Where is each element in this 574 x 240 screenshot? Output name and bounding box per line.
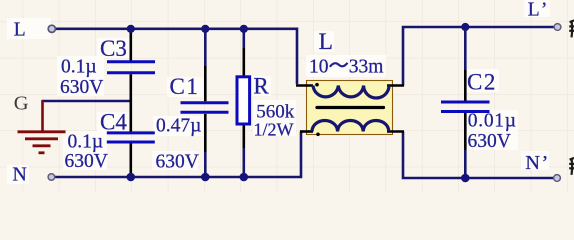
svg-text:R: R (253, 74, 269, 99)
wire: G wire horizontal (42, 100, 130, 103)
choke pin stub bottom-right (black) (387, 130, 404, 133)
svg-text:1/2W: 1/2W (254, 119, 294, 139)
svg-text:N: N (12, 163, 26, 185)
svg-text:C1: C1 (170, 74, 200, 99)
svg-text:0.1µ: 0.1µ (61, 57, 97, 78)
svg-text:C4: C4 (100, 110, 127, 135)
wire C1 top (204, 29, 207, 66)
svg-text:630V: 630V (60, 77, 103, 98)
junction C2 top (461, 23, 469, 31)
pin C1 bottom (black) (204, 114, 207, 152)
svg-text:L: L (319, 29, 333, 55)
svg-text:C2: C2 (467, 70, 497, 95)
svg-text:10: 10 (309, 56, 329, 77)
capacitor C1 plates (181, 103, 229, 113)
junction bottom R (240, 173, 249, 182)
wire: N rail left, up to choke bottom-left pin (55, 132, 301, 178)
junction top R (240, 25, 248, 33)
pin C4 bottom (black) (130, 143, 133, 177)
label white patches (7, 18, 51, 39)
svg-text:0.1µ: 0.1µ (68, 132, 104, 153)
ground bar 2 (25, 137, 58, 140)
pin C3 bottom / C4 top (black) (130, 74, 133, 131)
terminal N (48, 174, 55, 181)
svg-text:G: G (14, 93, 29, 115)
terminal L' (554, 24, 561, 31)
svg-text:L’: L’ (528, 0, 548, 20)
junction bottom C2 (461, 174, 470, 183)
junction top C1 (201, 25, 209, 33)
choke bottom winding arcs (312, 121, 389, 132)
pin R top (black) (243, 48, 246, 77)
wire C1 bottom (204, 152, 207, 177)
choke polarity dot top (315, 83, 319, 87)
svg-text:L: L (14, 19, 26, 40)
terminal N' (554, 175, 561, 182)
junction top C3 (127, 25, 135, 33)
ground bar 1 (18, 130, 66, 133)
choke top winding arcs (313, 86, 389, 98)
pin C3 top (black) (130, 29, 133, 61)
choke pin stub bottom-left (black) (300, 130, 313, 133)
capacitor C2 plates (441, 102, 490, 112)
wire: choke top-right up and right to L' (403, 27, 554, 86)
terminal L (48, 25, 55, 32)
svg-text:0.01µ: 0.01µ (468, 111, 517, 132)
svg-text:630V: 630V (156, 151, 199, 172)
pin C1 top (black) (204, 66, 207, 101)
junction bottom C4 (127, 173, 136, 182)
wire C2 top (464, 27, 467, 70)
choke pin stub top-right (black) (387, 84, 404, 87)
svg-text:33m: 33m (349, 56, 384, 77)
pin C2 bottom (black) (464, 113, 467, 150)
capacitor C4 plates (107, 133, 155, 142)
ground bar 3 (33, 144, 51, 147)
clipped Chinese character near L' (right edge) (569, 20, 574, 37)
svg-text:N’: N’ (525, 152, 548, 174)
svg-text:C3: C3 (100, 36, 127, 61)
ground bar 4 (39, 151, 45, 154)
choke polarity dot bottom (316, 133, 320, 137)
wire: choke bottom-right down and right to N' (403, 132, 553, 179)
ground stem (dark red) (41, 100, 44, 131)
svg-text:0.47µ: 0.47µ (156, 116, 201, 137)
inductor L (common-mode choke) body box (307, 81, 393, 135)
wire: top L rail from terminal to choke corner (56, 29, 297, 84)
capacitor C3 plates (107, 62, 155, 73)
resistor R body (237, 77, 250, 124)
choke pin stub top-left (black) (296, 84, 313, 87)
wire R top (243, 29, 246, 48)
wire C2 bottom (464, 150, 467, 178)
pin R bottom (black) (243, 124, 246, 148)
junction bottom C1 (201, 173, 210, 182)
svg-text:630V: 630V (65, 151, 108, 172)
pin C2 top (black) (464, 70, 467, 101)
choke core bar (317, 106, 384, 109)
svg-text:630V: 630V (468, 131, 511, 152)
tilde of 10~33m (330, 63, 348, 67)
clipped Chinese character near N' (right edge) (569, 158, 574, 175)
wire R bottom (243, 148, 246, 177)
